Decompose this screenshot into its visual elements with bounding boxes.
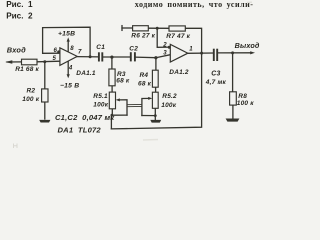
svg-text:R1 68 к: R1 68 к [15,66,39,73]
svg-text:Рис. 1: Рис. 1 [6,0,33,9]
svg-text:100 к: 100 к [237,100,254,107]
svg-text:ходимо помнить, что усили-: ходимо помнить, что усили- [135,0,254,9]
svg-text:Рис. 2: Рис. 2 [6,12,33,21]
svg-text:R8: R8 [238,93,247,100]
svg-text:R5.1: R5.1 [93,93,108,100]
svg-text:68 к: 68 к [116,78,130,85]
svg-text:100к: 100к [93,102,108,109]
svg-text:DA1 TL072: DA1 TL072 [58,125,102,134]
svg-text:68 к: 68 к [138,81,152,88]
svg-text:2: 2 [162,42,167,49]
svg-text:8: 8 [70,45,74,52]
svg-text:+15В: +15В [58,30,75,37]
svg-text:DA1.1: DA1.1 [76,70,96,77]
svg-text:R6 27 к: R6 27 к [131,33,155,40]
svg-text:C1,C2 0,047 мк: C1,C2 0,047 мк [55,113,115,122]
svg-text:100 к: 100 к [22,96,39,103]
svg-text:C1: C1 [96,44,105,51]
svg-text:Выход: Выход [235,41,260,50]
svg-text:DA1.2: DA1.2 [169,69,189,76]
svg-text:100к: 100к [161,102,176,109]
svg-text:C3: C3 [211,70,220,77]
svg-text:R7 47 к: R7 47 к [166,33,190,40]
svg-text:3: 3 [163,49,167,56]
svg-text:R2: R2 [27,88,36,95]
svg-text:C2: C2 [129,45,138,52]
svg-text:4: 4 [68,65,73,72]
svg-text:R5.2: R5.2 [162,93,177,100]
svg-text:−15 В: −15 В [60,82,79,89]
svg-text:R4: R4 [140,72,149,79]
svg-text:Вход: Вход [7,45,26,54]
svg-text:4,7 мк: 4,7 мк [205,79,227,86]
